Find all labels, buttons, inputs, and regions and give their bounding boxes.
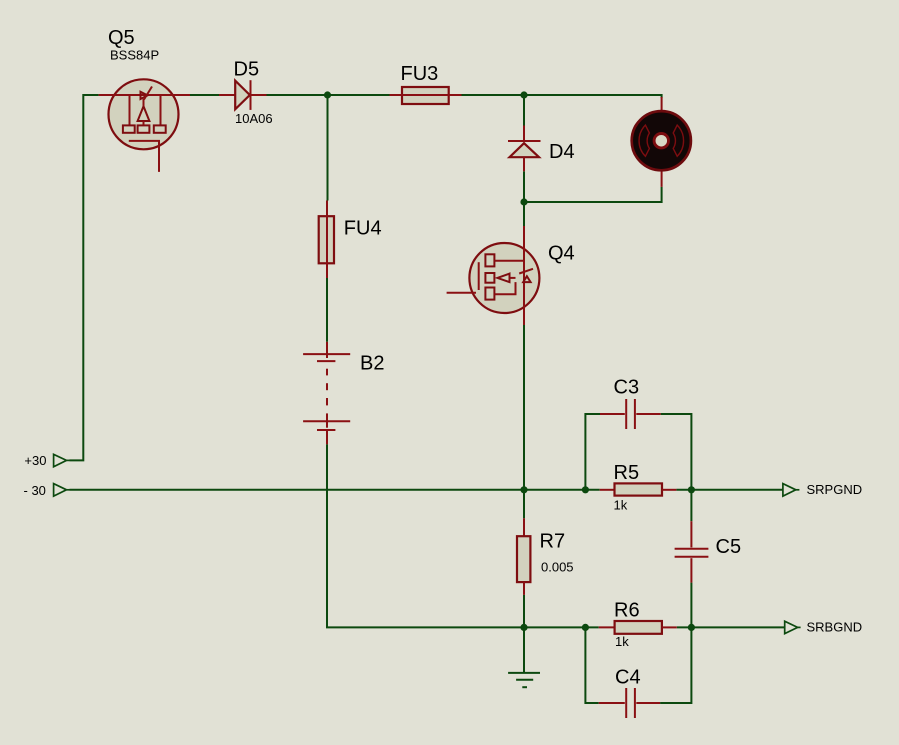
svg-text:FU4: FU4 — [344, 218, 382, 240]
node G junction — [520, 624, 527, 631]
svg-text:0.005: 0.005 — [541, 559, 574, 574]
ground — [508, 673, 540, 687]
fuse FU3 — [390, 87, 462, 104]
wire R6 right to SRBGND — [677, 626, 785, 628]
svg-text:FU3: FU3 — [401, 63, 439, 85]
resistor R7 — [517, 518, 530, 595]
wire Q5 to D5 — [190, 94, 219, 96]
node D junction — [520, 486, 527, 493]
wire ground stem — [523, 627, 525, 672]
capacitor C4 — [599, 688, 660, 718]
wire -30 rail right to SRPGND — [676, 489, 783, 491]
wire R7 bottom — [523, 595, 525, 628]
terminal SRPGND — [783, 484, 800, 497]
svg-text:1k: 1k — [614, 497, 628, 512]
battery B2 — [303, 342, 350, 445]
wire D5 to node A — [267, 94, 328, 96]
svg-text:10A06: 10A06 — [235, 111, 273, 126]
terminal +30 — [54, 454, 70, 467]
svg-text:SRBGND: SRBGND — [807, 619, 863, 634]
wire D4 to node C — [523, 171, 525, 202]
svg-text:BSS84P: BSS84P — [110, 48, 159, 63]
svg-text:D4: D4 — [549, 141, 575, 163]
wire C4 left leg — [585, 627, 598, 703]
svg-text:Q4: Q4 — [548, 242, 575, 264]
svg-text:Q5: Q5 — [108, 27, 135, 49]
transistor Q4 — [447, 226, 540, 325]
node F junction — [688, 486, 695, 493]
svg-text:B2: B2 — [360, 352, 384, 374]
terminal -30 — [54, 484, 70, 497]
node H junction — [582, 624, 589, 631]
diode D4 — [508, 126, 541, 172]
wire motor bottom to node C — [524, 187, 662, 202]
node E junction — [582, 486, 589, 493]
svg-text:R7: R7 — [540, 530, 566, 552]
svg-text:- 30: - 30 — [24, 483, 46, 498]
node C junction — [520, 198, 527, 205]
wire B2 down to bottom rail corner — [327, 444, 599, 627]
wire -30 rail left — [70, 489, 600, 491]
wire node A down to FU4 — [327, 95, 329, 201]
svg-text:SRPGND: SRPGND — [807, 482, 863, 497]
fuse FU4 — [319, 201, 334, 279]
diode D5 — [219, 80, 267, 110]
wire C3 right leg — [661, 414, 692, 490]
motor — [632, 97, 691, 187]
wire FU4 to B2 — [326, 278, 328, 342]
svg-text:+30: +30 — [24, 453, 46, 468]
wire FU3 to node B — [462, 94, 525, 96]
node A junction — [324, 91, 331, 98]
svg-text:R6: R6 — [614, 599, 640, 621]
capacitor C5 — [675, 521, 709, 582]
capacitor C3 — [600, 399, 661, 429]
wire C3 left leg — [585, 414, 600, 490]
wire C4 right leg — [660, 627, 691, 703]
wire top-left vertical from +30 corner up to Q5 — [70, 95, 99, 460]
node B junction — [520, 91, 527, 98]
wire node A to FU3 — [328, 94, 390, 96]
wire node B to motor top corner — [524, 95, 662, 98]
node I junction — [688, 624, 695, 631]
svg-text:D5: D5 — [234, 58, 260, 80]
wire node B to D4 — [523, 95, 525, 126]
wire C5 bottom leg — [690, 583, 692, 628]
svg-text:C4: C4 — [615, 666, 641, 688]
svg-text:1k: 1k — [615, 634, 629, 649]
resistor R5 — [600, 483, 677, 495]
svg-text:C3: C3 — [614, 376, 640, 398]
wire node C to Q4 drain — [523, 202, 525, 226]
wire R7 top — [523, 490, 525, 519]
transistor Q5 — [99, 79, 190, 172]
svg-text:R5: R5 — [614, 462, 640, 484]
resistor R6 — [599, 621, 677, 634]
svg-text:C5: C5 — [716, 536, 742, 558]
terminal SRBGND — [785, 621, 801, 634]
wire Q4 source down to node D — [523, 325, 525, 490]
wire C5 top leg — [690, 490, 692, 521]
